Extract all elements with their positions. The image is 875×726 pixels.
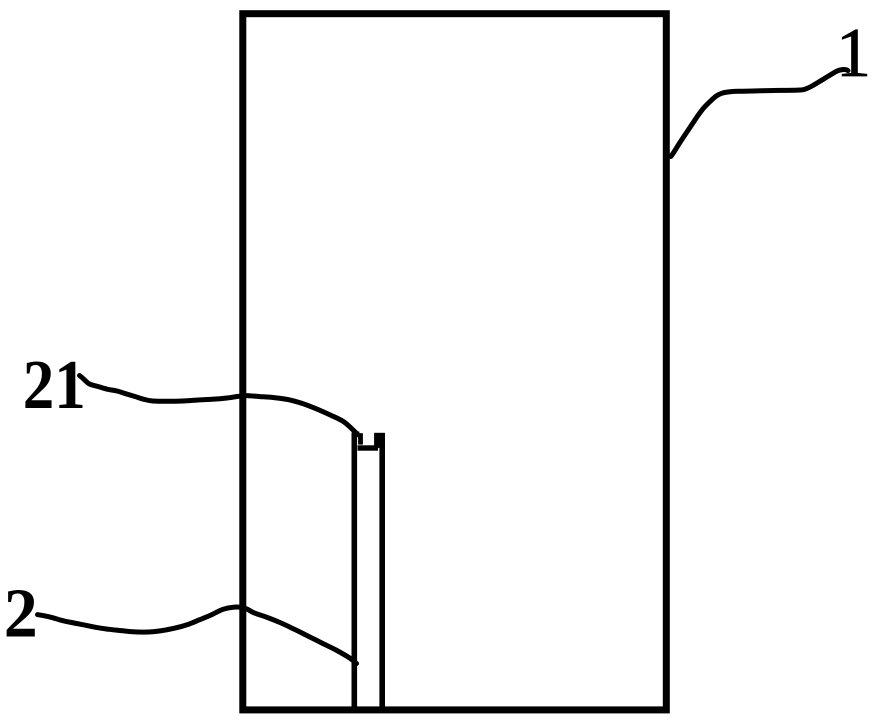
svg-text:21: 21	[23, 347, 86, 424]
svg-text:1: 1	[836, 15, 871, 92]
svg-text:2: 2	[4, 576, 38, 653]
